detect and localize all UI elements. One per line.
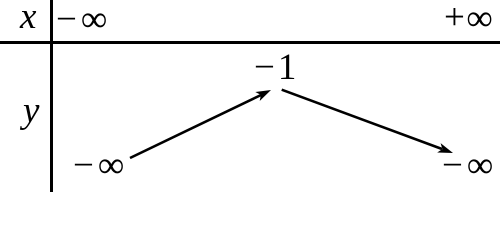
arrows svg [0, 0, 500, 192]
function label y [23, 92, 39, 129]
vertical header divider line [50, 0, 53, 192]
variable label x [20, 0, 36, 35]
value -infinity bottom right [442, 147, 493, 184]
node +infinity top right [444, 0, 493, 36]
maximum value -1 [254, 49, 296, 86]
decreasing arrow head [437, 143, 453, 153]
increasing arrow shaft [130, 95, 261, 158]
horizontal row divider line [0, 41, 500, 44]
increasing arrow head [255, 90, 271, 101]
value -infinity bottom left [73, 147, 124, 184]
node -infinity top left [56, 1, 107, 38]
decreasing arrow shaft [282, 90, 442, 149]
